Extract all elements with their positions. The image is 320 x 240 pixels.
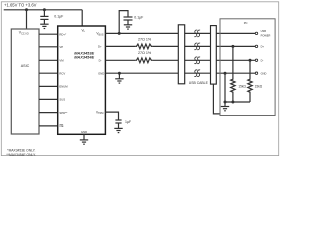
terminal GND — [255, 72, 257, 74]
wire D- left of R2 — [105, 59, 135, 61]
wire ASIC-VM — [39, 59, 58, 61]
connector J2 receptacle — [211, 26, 217, 85]
svg-text:GND: GND — [261, 71, 267, 75]
svg-text:VL: VL — [82, 28, 86, 33]
wire J2 stem to PC box — [213, 84, 220, 114]
node PC GND corner — [224, 72, 227, 75]
svg-text:D-: D- — [261, 58, 264, 62]
wire VL drop from rail to IC top — [81, 10, 83, 26]
svg-text:OE: OE — [59, 124, 63, 128]
wire D+ left of R1 — [105, 45, 135, 47]
ground on GND wire — [115, 73, 123, 83]
wire VBUS — [105, 32, 255, 34]
wire D+ right of R1 — [153, 45, 256, 47]
wire ASIC-RCV — [39, 72, 58, 74]
svg-text:**MAX3454E ONLY.: **MAX3454E ONLY. — [6, 153, 36, 157]
svg-text:PC: PC — [244, 21, 248, 25]
svg-text:ASIC: ASIC — [21, 64, 30, 68]
wire PC gnd rail — [225, 101, 250, 103]
svg-text:+1.65V TO +3.6V: +1.65V TO +3.6V — [4, 3, 37, 8]
svg-text:27Ω 1%: 27Ω 1% — [138, 37, 152, 41]
resistor R3 15k — [231, 46, 235, 102]
wire ASIC-SPD — [39, 112, 58, 114]
wire ASIC-SUS — [39, 98, 58, 100]
svg-text:GND: GND — [81, 130, 87, 134]
cable squiggle D- — [194, 57, 200, 64]
svg-text:MAX3454E: MAX3454E — [74, 54, 94, 59]
node D- pulldown junction — [249, 59, 252, 62]
node GND junction — [118, 72, 121, 75]
svg-text:VM: VM — [59, 58, 64, 62]
wire ASIC VCC to rail — [26, 10, 28, 29]
svg-text:1µF: 1µF — [125, 120, 131, 124]
svg-text:SUS: SUS — [59, 98, 65, 102]
wire ASIC-ENUM — [39, 85, 58, 87]
capacitor C1 0.1uF — [40, 10, 48, 24]
IC U1 MAX3453E/MAX3454E box — [58, 26, 106, 134]
svg-text:0.1µF: 0.1µF — [54, 15, 63, 19]
resistor R4 15k — [248, 60, 252, 102]
pin OE overline — [60, 123, 64, 125]
svg-text:SPD**: SPD** — [59, 111, 68, 115]
svg-text:VTRM: VTRM — [96, 110, 103, 115]
ASIC box — [11, 29, 39, 134]
svg-text:VP: VP — [59, 45, 63, 49]
node gnd rail mid — [231, 101, 234, 104]
wire VTRM — [105, 112, 118, 120]
wire ASIC-VP — [39, 46, 58, 48]
resistor R1 27ohm — [135, 44, 152, 49]
terminal USB POWER — [255, 32, 257, 34]
svg-text:RD+*: RD+* — [59, 32, 67, 36]
cable squiggle VBUS — [194, 30, 200, 37]
node rail-C1 junction — [43, 8, 46, 11]
svg-text:15kΩ: 15kΩ — [238, 84, 246, 88]
svg-text:RCV: RCV — [59, 72, 65, 76]
ground under C2 — [124, 25, 132, 29]
cable squiggle D+ — [194, 43, 200, 50]
svg-text:0.1µF: 0.1µF — [134, 16, 143, 20]
wire D- right of R2 — [153, 59, 256, 61]
svg-text:ENUM: ENUM — [59, 85, 68, 89]
wire GND cable — [105, 72, 255, 74]
PC box — [220, 19, 275, 116]
node rail-ASIC junction — [25, 8, 28, 11]
svg-text:D+: D+ — [261, 44, 265, 48]
connector J1 plug — [178, 25, 184, 84]
figure border frame — [1, 2, 278, 156]
supply rail +1.65V TO +3.6V — [4, 9, 83, 11]
svg-text:USB CABLE: USB CABLE — [189, 81, 209, 85]
wire GND pin bottom stub — [83, 134, 85, 140]
svg-text:GND: GND — [98, 72, 104, 76]
ground under IC GND — [80, 140, 88, 144]
terminal D+ — [255, 45, 257, 47]
ground in PC — [221, 102, 229, 111]
wire PC gnd down — [224, 73, 226, 102]
svg-text:VBUS: VBUS — [96, 32, 103, 37]
capacitor C3 1uF — [115, 120, 121, 128]
svg-text:15kΩ: 15kΩ — [255, 84, 263, 88]
svg-text:*MAX3453E ONLY.: *MAX3453E ONLY. — [7, 148, 35, 152]
resistor R2 27ohm — [135, 58, 152, 63]
ground under C3 — [114, 128, 122, 132]
terminal D- — [255, 59, 257, 61]
wire ASIC-RD+ — [39, 33, 58, 35]
ground under C1 — [40, 24, 48, 28]
wire ASIC-OE — [39, 125, 58, 127]
svg-text:USB: USB — [261, 29, 267, 33]
capacitor C2 0.1uF on VBUS — [119, 11, 132, 34]
node gnd rail left — [224, 101, 227, 104]
node VBUS-C2 junction — [118, 32, 121, 35]
node D+ pulldown junction — [231, 45, 234, 48]
svg-text:D+: D+ — [98, 45, 102, 49]
svg-text:VCC I/O: VCC I/O — [19, 31, 29, 36]
svg-text:POWER: POWER — [261, 33, 271, 37]
svg-text:D-: D- — [99, 58, 102, 62]
svg-text:27Ω 1%: 27Ω 1% — [138, 51, 152, 55]
cable squiggle GND — [194, 70, 200, 77]
